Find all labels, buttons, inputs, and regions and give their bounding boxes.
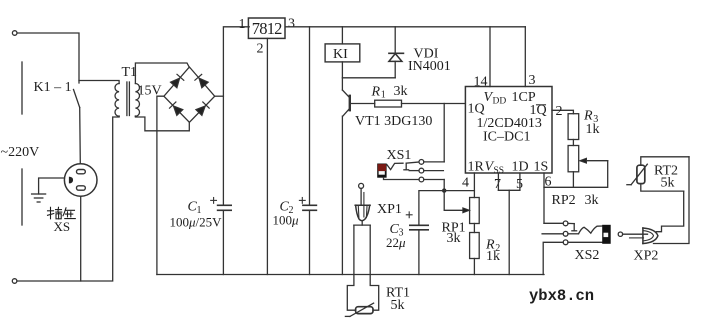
wire KI branch from rail	[341, 27, 343, 44]
switch K1-1	[74, 90, 81, 164]
XP1 pin	[360, 188, 362, 205]
svg-text:1k: 1k	[486, 249, 500, 264]
XP1 stem	[361, 222, 363, 225]
ground	[32, 194, 46, 202]
bottom rail	[157, 274, 544, 276]
wire XS2 tip terminal left (from pin6)	[544, 222, 563, 224]
wire XS1 tip drop from R1 wire	[443, 104, 445, 162]
svg-text:1Q: 1Q	[468, 102, 485, 117]
svg-text:XS2: XS2	[575, 248, 600, 263]
svg-text:IN4001: IN4001	[408, 59, 451, 74]
capacitor C1	[218, 205, 232, 210]
svg-text:2: 2	[556, 104, 563, 119]
potentiometer RP1	[470, 198, 480, 224]
wire XS2 sleeve terminal to sleeve	[568, 241, 602, 243]
wire KI bottom to collector node	[341, 62, 343, 90]
svg-text:100μ: 100μ	[273, 213, 300, 228]
wire XS1 tip terminal right	[424, 161, 444, 163]
svg-text:100μ/25V: 100μ/25V	[170, 215, 223, 230]
svg-text:1k: 1k	[586, 122, 600, 137]
bridge diode D3 bottom-left	[170, 102, 183, 115]
wire bridge minus (left vertex) down to bottom rail	[157, 96, 164, 274]
RT1 diagonal	[345, 303, 373, 316]
wire +12V rail from 7812 pin3	[286, 26, 526, 28]
diode VDI IN4001	[389, 27, 404, 78]
wire top-left terminal to switch	[17, 33, 79, 83]
svg-text:5k: 5k	[661, 176, 675, 191]
wire C2 bottom to rail	[309, 210, 311, 274]
wire bottom terminal to transformer primary bottom	[17, 116, 119, 281]
bridge diode D4 bottom-right	[196, 102, 209, 115]
svg-text:3k: 3k	[585, 193, 599, 208]
node N input terminal bottom-left	[12, 279, 17, 284]
bridge rectifier diamond	[164, 67, 215, 122]
wire RP2 bottom to return line	[572, 172, 574, 188]
wire C2 branch from +12V rail	[309, 27, 311, 206]
wire secondary top to bridge top vertex	[135, 63, 189, 84]
C1 plus sign	[211, 198, 217, 204]
XS2 tip spring contact	[579, 226, 603, 234]
svg-text:ybx8.cn: ybx8.cn	[529, 287, 594, 305]
svg-text:3: 3	[288, 17, 295, 32]
wire pin4 down to RP1	[473, 173, 475, 198]
svg-text:3k: 3k	[394, 84, 408, 99]
bridge diode D2 top-right	[195, 74, 208, 87]
svg-text:IC–DC1: IC–DC1	[483, 130, 530, 145]
wire R1 to IC pin1 1Q	[402, 103, 466, 105]
svg-text:XS: XS	[54, 219, 71, 234]
svg-text:KI: KI	[333, 47, 348, 62]
mains bar lower	[21, 169, 23, 225]
XS1 terminal circles	[419, 160, 424, 182]
XP1 inner lead	[363, 193, 365, 218]
wire pin6 down to XS2 tip	[544, 173, 563, 223]
svg-text:4: 4	[462, 176, 469, 191]
svg-text:~220V: ~220V	[1, 145, 40, 160]
node L input terminal top-left	[12, 31, 17, 36]
wire XS2 sleeve terminal left to rail	[543, 242, 563, 274]
resistor R1	[375, 100, 402, 107]
node reset junction dot	[442, 188, 446, 192]
svg-text:1S: 1S	[534, 160, 549, 175]
C2 plus sign	[299, 198, 305, 204]
thermistor RT2 body	[637, 165, 645, 183]
wire socket bottom to lower rail	[80, 196, 82, 281]
XP1 shaft top	[354, 224, 370, 226]
RT2 diagonal	[627, 164, 647, 185]
svg-text:RP2: RP2	[552, 193, 576, 208]
mains bar upper	[21, 62, 23, 114]
potentiometer RP2	[568, 146, 579, 172]
plug XP2 tip circle	[618, 232, 622, 236]
wire junction to RP1 wiper	[444, 191, 465, 211]
wire 7812 pin2 to bottom rail	[266, 38, 268, 274]
transformer T1 core	[127, 82, 129, 116]
wire RP1 to R2	[473, 224, 475, 233]
wire XS2 tip terminal to hook	[568, 222, 574, 224]
wire pins 7 and 5 joined to rail	[498, 173, 520, 275]
bridge diode D1 top-left	[171, 74, 184, 88]
RP2 wiper arrow	[580, 158, 608, 163]
svg-text:XP2: XP2	[634, 249, 659, 264]
wire C1 bottom to rail	[222, 210, 224, 274]
C3 plus sign	[406, 212, 412, 218]
RT2 loop top edge	[641, 157, 689, 165]
svg-text:XP1: XP1	[377, 202, 402, 217]
transformer T1 primary winding	[115, 84, 119, 117]
svg-text:22μ: 22μ	[386, 235, 406, 250]
capacitor C3	[410, 225, 428, 230]
jack XS2 sleeve body	[602, 225, 611, 244]
XP2 pin leads	[623, 234, 648, 238]
wire junction to C3	[419, 191, 444, 226]
svg-text:T1: T1	[122, 65, 138, 80]
wire R3 to RP2	[572, 140, 574, 146]
wire secondary bottom to bridge bottom vertex	[135, 116, 189, 131]
wire C3 bottom to rail	[418, 230, 420, 275]
wire KI/VDI junction horizontal	[342, 77, 395, 79]
resistor R3	[568, 114, 579, 140]
wire XP1 left lead down to RT1	[347, 225, 355, 310]
wire R2 to rail	[473, 259, 475, 275]
relay KI box	[325, 44, 360, 62]
svg-text:5k: 5k	[391, 298, 405, 313]
svg-text:1: 1	[381, 90, 386, 101]
wire XP1 right lead down to RT1	[370, 225, 379, 310]
label 插座 (drawn strokes)	[48, 207, 76, 219]
wire XS1 middle contact stub	[409, 170, 419, 172]
socket slot top	[77, 170, 86, 174]
socket slot left	[69, 177, 73, 184]
wire IC pin3 from rail	[524, 27, 526, 87]
wire XS2 middle open stub left	[542, 233, 563, 235]
wire XS1 sleeve terminal right	[424, 179, 444, 181]
XP1 plug cone	[355, 205, 370, 221]
svg-text:3k: 3k	[447, 231, 461, 246]
capacitor C2	[303, 205, 317, 210]
XS2 break hook	[572, 224, 577, 231]
transistor VT1	[342, 90, 374, 116]
svg-text:K1 – 1: K1 – 1	[34, 80, 72, 95]
wire XP2 lower contact to RT2 right edge	[654, 157, 690, 244]
plug XP1 tip circle	[359, 183, 364, 188]
XS1 break hook	[404, 163, 409, 170]
regulator U2 7812 box	[248, 18, 285, 38]
wire +V vertical to 7812 pin1 / C1 top	[223, 27, 249, 206]
resistor R2	[470, 233, 480, 259]
transformer T1 secondary winding	[135, 84, 139, 117]
svg-text:1: 1	[239, 17, 246, 32]
svg-text:XS1: XS1	[387, 148, 412, 163]
svg-text:3: 3	[529, 73, 536, 88]
IC U1 1/2 CD4013 box	[465, 87, 552, 174]
thermistor RT1 body	[356, 307, 373, 314]
XP2 plug cone	[643, 228, 658, 244]
svg-text:7812: 7812	[252, 19, 282, 38]
svg-text:1D: 1D	[512, 160, 529, 175]
jack XS2 terminal circles	[563, 221, 568, 245]
svg-text:14: 14	[474, 75, 488, 90]
wire XP2 upper contact to RT2 loop	[657, 191, 684, 232]
wire XS1 middle terminal right open stub	[424, 170, 444, 172]
jack XS1 sleeve body	[377, 164, 386, 178]
RT2 loop bottom edge	[641, 184, 684, 191]
wire switch node to transformer primary top	[79, 81, 119, 84]
svg-text:VT1 3DG130: VT1 3DG130	[355, 114, 432, 129]
wire pin2 to R3	[552, 110, 573, 113]
wire VT1 emitter to bottom rail	[341, 116, 343, 274]
wire XS1 sleeve down to junction	[443, 180, 445, 191]
wire IC pin14 from rail	[489, 27, 491, 87]
wire XS1 sleeve to sleeve terminal	[384, 178, 420, 180]
wire junction to pin4 line	[444, 190, 474, 192]
wire hook to XS1 tip terminal	[406, 162, 419, 163]
wire RP2 wiper return to pin6	[544, 161, 608, 188]
RP1 wiper arrowhead	[463, 208, 470, 213]
socket slot bottom	[77, 186, 86, 190]
svg-text:1R: 1R	[468, 160, 485, 175]
svg-text:2: 2	[257, 42, 264, 57]
wire socket to ground	[39, 178, 65, 194]
socket XS circle	[64, 164, 97, 197]
svg-text:R: R	[371, 85, 381, 100]
wire XS2 middle terminal to spring	[568, 233, 579, 235]
XS1 tip spring contact	[387, 163, 403, 169]
wire bridge plus (right vertex) to +V node	[215, 95, 224, 97]
svg-text:DD: DD	[493, 97, 507, 107]
overline of 1Q-bar	[537, 104, 546, 106]
